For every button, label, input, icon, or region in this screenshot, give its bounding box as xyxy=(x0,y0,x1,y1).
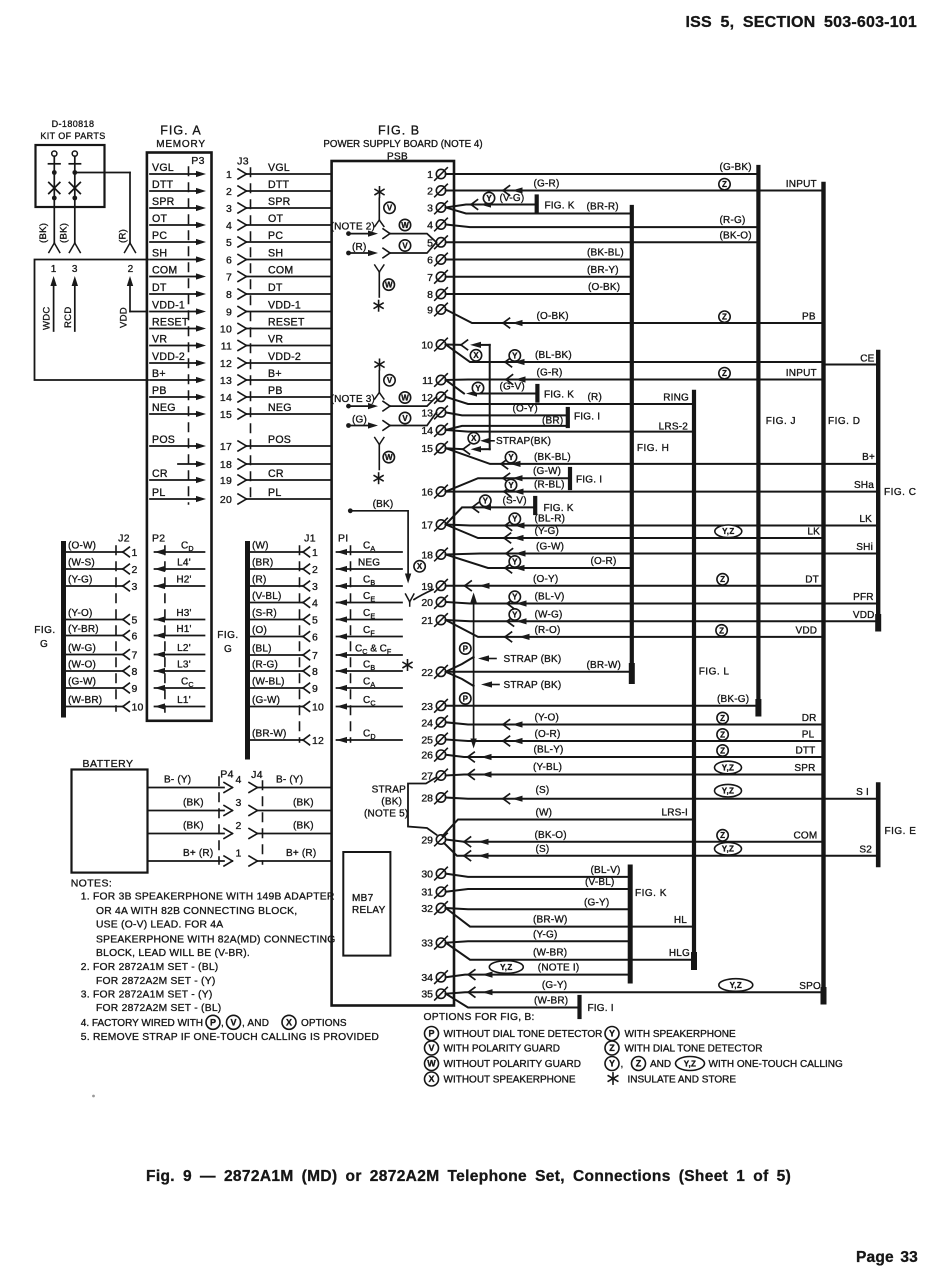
P1 wire CCF xyxy=(337,654,403,656)
svg-text:W: W xyxy=(427,1059,436,1069)
svg-text:5: 5 xyxy=(312,615,318,627)
svg-text:LK: LK xyxy=(807,527,820,538)
battery wire (BK) pin 2 xyxy=(148,833,225,835)
svg-text:4. FACTORY WIRED WITH: 4. FACTORY WIRED WITH xyxy=(81,1018,203,1029)
J1 wire (W-BL) pin 9 xyxy=(249,687,303,689)
option W circle (NOTE 2 wire1) xyxy=(399,219,410,230)
wire J3-9 to PSB xyxy=(247,311,332,313)
wire pin31 (V-BL) to FIG.K bracket xyxy=(446,889,631,892)
PSB pin 20 xyxy=(421,596,447,609)
J1 wire (V-BL) pin 4 xyxy=(249,602,303,604)
wire pin11 (G-R) INPUT to FIG.D bus xyxy=(446,379,824,382)
svg-text:G: G xyxy=(40,639,48,650)
svg-text:OT: OT xyxy=(268,213,283,225)
svg-text:31: 31 xyxy=(421,887,433,899)
J2 wire (W-G) pin 7 xyxy=(65,654,123,656)
svg-text:Y: Y xyxy=(486,194,492,203)
svg-text:1. FOR 3B SPEAKERPHONE WITH 14: 1. FOR 3B SPEAKERPHONE WITH 149B ADAPTER xyxy=(81,892,335,903)
svg-text:(BR-W): (BR-W) xyxy=(587,660,622,671)
svg-text:FIG. A: FIG. A xyxy=(160,124,201,138)
label STRAP(BK) at pin15 xyxy=(480,438,490,444)
option W circle (NOTE 2 bottom) xyxy=(383,279,394,290)
svg-text:BLOCK, LEAD WILL BE (V-BR).: BLOCK, LEAD WILL BE (V-BR). xyxy=(96,948,250,959)
svg-text:NEG: NEG xyxy=(152,402,176,414)
PSB pin 35 xyxy=(421,987,447,1000)
option V circle (NOTE 2 wire2) xyxy=(399,240,410,251)
svg-text:9: 9 xyxy=(226,307,232,319)
svg-text:J3: J3 xyxy=(237,156,249,168)
svg-text:Z: Z xyxy=(720,831,725,840)
wire pin3 (BR-R) to FIG.H bus xyxy=(446,208,632,214)
wire CE between FIG.D and FIG.C xyxy=(824,364,879,366)
wire SH row from kit region xyxy=(35,260,149,381)
wire pin29 (S) S2 to FIG.E bus xyxy=(444,843,878,856)
wire J3-10 to PSB xyxy=(247,328,332,330)
wire pin21 (W-G) VDD to FIG.C bus xyxy=(446,620,879,621)
svg-text:7: 7 xyxy=(226,272,232,284)
PSB pin 24 xyxy=(421,716,447,729)
svg-text:Y,Z: Y,Z xyxy=(722,845,734,854)
svg-text:Y: Y xyxy=(609,1059,615,1069)
P2 wire L3' xyxy=(155,670,205,672)
svg-text:LRS-I: LRS-I xyxy=(661,808,688,819)
svg-text:7: 7 xyxy=(312,650,318,662)
svg-text:HLG: HLG xyxy=(669,948,690,959)
svg-text:RCD: RCD xyxy=(63,307,74,328)
svg-text:(BR-W): (BR-W) xyxy=(252,729,287,740)
svg-text:35: 35 xyxy=(421,989,433,1001)
svg-text:(R): (R) xyxy=(118,229,129,243)
PSB pin 11 xyxy=(422,374,447,387)
J2 wire (Y-G) pin 3 xyxy=(65,585,123,587)
strap note5 between pin 27 and 29 xyxy=(408,778,437,835)
P1 wire CC xyxy=(337,706,403,708)
J2 wire (G-W) pin 9 xyxy=(65,687,123,689)
svg-text:(O-R): (O-R) xyxy=(535,729,561,740)
svg-text:(G-V): (G-V) xyxy=(500,382,525,393)
svg-text:X: X xyxy=(473,351,479,360)
svg-text:(BK): (BK) xyxy=(381,797,402,808)
J2 wire (Y-O) pin 5 xyxy=(65,619,123,621)
svg-text:PL: PL xyxy=(268,487,281,499)
svg-text:(Y-G): (Y-G) xyxy=(535,526,560,537)
svg-text:D-180818: D-180818 xyxy=(52,119,95,129)
svg-text:(R): (R) xyxy=(588,392,602,403)
svg-text:(W-G): (W-G) xyxy=(535,609,563,620)
svg-text:J4: J4 xyxy=(251,769,263,781)
J1 dashed connector line xyxy=(299,546,301,742)
svg-text:(S): (S) xyxy=(536,844,550,855)
svg-text:COM: COM xyxy=(152,264,177,276)
svg-text:(Y-G): (Y-G) xyxy=(533,929,558,940)
wire pin13 (O-Y) to FIG.I bar xyxy=(446,412,568,415)
wire pin28 (S) S1 to FIG.E bus xyxy=(446,798,879,799)
kit fork terminal 2 xyxy=(69,243,75,253)
svg-text:3: 3 xyxy=(235,797,241,809)
memory box outline xyxy=(147,153,212,721)
svg-text:S2: S2 xyxy=(859,844,872,855)
svg-text:VDD: VDD xyxy=(795,625,817,636)
bus FIG.D vertical xyxy=(821,184,825,992)
wire pin17 (BL-R) LK to FIG.C bus xyxy=(446,525,879,526)
wire pin6 (BK-BL) to FIG.H bus xyxy=(446,259,632,261)
svg-text:PFR: PFR xyxy=(853,592,874,603)
svg-text:Y,Z: Y,Z xyxy=(722,763,734,772)
svg-text:AND: AND xyxy=(650,1059,671,1070)
svg-text:FIG. K: FIG. K xyxy=(545,201,575,212)
svg-text:SPR: SPR xyxy=(152,196,175,208)
svg-text:(G-W): (G-W) xyxy=(68,677,96,688)
P1 wire CD xyxy=(337,739,403,741)
svg-text:P: P xyxy=(463,694,469,703)
svg-text:3: 3 xyxy=(132,581,138,593)
svg-text:WITH ONE-TOUCH CALLING: WITH ONE-TOUCH CALLING xyxy=(709,1059,843,1070)
kit fork terminal 1 xyxy=(49,243,55,253)
svg-text:INPUT: INPUT xyxy=(786,179,817,190)
svg-text:SPR: SPR xyxy=(794,763,815,774)
svg-text:19: 19 xyxy=(220,475,232,487)
option V circle (NOTE 2 top) xyxy=(384,202,395,213)
svg-text:SH: SH xyxy=(268,247,283,259)
svg-text:14: 14 xyxy=(220,392,232,404)
svg-text:10: 10 xyxy=(312,702,324,714)
svg-text:INSULATE AND STORE: INSULATE AND STORE xyxy=(628,1075,737,1086)
wire J3-17 to PSB xyxy=(247,445,332,447)
option W circle (NOTE 3 bottom) xyxy=(383,451,394,462)
svg-text:OPTIONS: OPTIONS xyxy=(301,1018,347,1029)
svg-text:Z: Z xyxy=(609,1043,615,1053)
option V circle (NOTE 3 top) xyxy=(384,375,395,386)
fork terminal at pin20 row xyxy=(406,594,410,602)
svg-text:(BL-V): (BL-V) xyxy=(591,865,621,876)
PSB pin 34 xyxy=(421,971,447,984)
svg-text:Z: Z xyxy=(720,714,725,723)
RCD arrow xyxy=(74,280,76,331)
svg-text:(O-Y): (O-Y) xyxy=(533,574,558,585)
svg-text:, AND: , AND xyxy=(242,1018,269,1029)
svg-text:6: 6 xyxy=(427,255,433,267)
svg-text:Y: Y xyxy=(475,384,481,393)
wire J3-15 to PSB xyxy=(247,413,332,415)
svg-text:(V-BL): (V-BL) xyxy=(252,591,282,602)
svg-text:30: 30 xyxy=(421,869,433,881)
svg-text:FIG. I: FIG. I xyxy=(576,475,602,486)
P1 wire CB xyxy=(337,670,403,672)
wire J3-4 to PSB xyxy=(247,224,332,226)
svg-text:23: 23 xyxy=(421,701,433,713)
PSB box outline xyxy=(332,161,454,1006)
svg-text:(BK-G): (BK-G) xyxy=(717,694,749,705)
svg-text:10: 10 xyxy=(220,324,232,336)
PSB pin 12 xyxy=(421,391,447,404)
P2 wire H1' xyxy=(155,635,205,637)
svg-text:X: X xyxy=(428,1074,434,1084)
bus FIG.E vertical xyxy=(876,785,881,866)
J1 wire (BL) pin 7 xyxy=(249,654,303,656)
svg-text:DTT: DTT xyxy=(268,179,290,191)
FIG.K termination bracket bottom xyxy=(628,867,633,981)
wire pin19 (O-Y) DT to FIG.D bus xyxy=(446,585,824,587)
wire pin16 (R-BL) SHa to FIG.C bus xyxy=(446,491,879,493)
svg-text:FIG.: FIG. xyxy=(34,625,55,636)
wire J3-13 to PSB xyxy=(247,379,332,381)
wire pin26 (BL-Y) DTT to FIG.D bus xyxy=(446,755,824,757)
svg-text:8: 8 xyxy=(312,666,318,678)
PSB pin 6 xyxy=(427,253,447,266)
battery wire B- (Y) pin 4 xyxy=(148,787,225,789)
svg-text:POS: POS xyxy=(268,434,291,446)
svg-text:13: 13 xyxy=(220,375,232,387)
svg-text:15: 15 xyxy=(421,443,433,455)
svg-text:(R): (R) xyxy=(352,242,366,253)
svg-text:H1': H1' xyxy=(176,624,191,635)
wire pin20 (BL-V) PFR to FIG.C bus xyxy=(446,602,879,604)
P2 wire H2' xyxy=(155,585,205,587)
PSB pin 33 xyxy=(421,936,447,949)
svg-text:X: X xyxy=(471,434,477,443)
svg-text:(BR-R): (BR-R) xyxy=(587,202,619,213)
insulated lead asterisk top (NOTE 2) xyxy=(379,187,381,197)
PSB pin 8 xyxy=(427,288,447,301)
svg-text:H2': H2' xyxy=(176,575,191,586)
svg-text:12: 12 xyxy=(220,358,232,370)
J4 dashed connector line xyxy=(262,781,264,864)
svg-text:3: 3 xyxy=(312,581,318,593)
svg-text:5: 5 xyxy=(226,237,232,249)
wire pin5 (BK-O) to FIG.J bus xyxy=(446,241,759,243)
svg-text:Z: Z xyxy=(720,730,725,739)
P1 wire CA xyxy=(337,687,403,689)
svg-text:SPR: SPR xyxy=(268,196,291,208)
svg-text:RESET: RESET xyxy=(268,316,305,328)
bus FIG.J vertical xyxy=(756,167,760,704)
P2 wire CC xyxy=(155,687,205,689)
kit fork terminal 3 (R) xyxy=(125,243,131,253)
bus FIG.H vertical xyxy=(630,207,634,668)
svg-text:WITHOUT SPEAKERPHONE: WITHOUT SPEAKERPHONE xyxy=(444,1075,576,1086)
svg-text:(W-BR): (W-BR) xyxy=(533,948,567,959)
svg-text:Y: Y xyxy=(512,610,518,619)
svg-text:Y: Y xyxy=(609,1029,615,1039)
svg-text:G: G xyxy=(224,644,232,655)
legend option V xyxy=(425,1041,439,1055)
svg-text:8: 8 xyxy=(132,666,138,678)
svg-text:(W-BR): (W-BR) xyxy=(68,695,102,706)
wire pin32 (G-Y) to FIG.K bracket xyxy=(446,908,631,909)
svg-text:H3': H3' xyxy=(176,608,191,619)
wire pin22 (BR-W) to FIG.H bus xyxy=(446,671,632,673)
svg-text:17: 17 xyxy=(421,520,433,532)
wire 1 dot-arrow-fork (NOTE 3) xyxy=(346,404,351,409)
PSB pin 4 xyxy=(427,218,447,231)
svg-text:9: 9 xyxy=(312,683,318,695)
svg-text:RELAY: RELAY xyxy=(352,905,386,916)
svg-text:13: 13 xyxy=(421,407,433,419)
svg-text:10: 10 xyxy=(132,702,144,714)
svg-text:8: 8 xyxy=(427,289,433,301)
svg-text:STRAP: STRAP xyxy=(372,785,406,796)
svg-text:(Y-G): (Y-G) xyxy=(68,575,93,586)
svg-text:9: 9 xyxy=(132,683,138,695)
svg-text:,: , xyxy=(621,1059,624,1070)
svg-text:2: 2 xyxy=(226,186,232,198)
svg-text:(W): (W) xyxy=(252,541,269,552)
svg-text:3: 3 xyxy=(72,264,78,275)
PSB pin 2 xyxy=(427,184,447,197)
svg-text:(BL): (BL) xyxy=(252,644,272,655)
svg-text:B- (Y): B- (Y) xyxy=(276,775,303,786)
battery wire (BK) pin 3 xyxy=(148,810,225,812)
J1 wire (O) pin 6 xyxy=(249,636,303,638)
svg-text:DTT: DTT xyxy=(795,746,815,757)
svg-text:(R-BL): (R-BL) xyxy=(534,480,565,491)
P1 wire CE xyxy=(337,602,403,604)
wire J3-3 to PSB xyxy=(247,207,332,209)
svg-text:P: P xyxy=(463,644,469,653)
svg-text:4: 4 xyxy=(226,220,232,232)
svg-text:B+ (R): B+ (R) xyxy=(286,848,316,859)
svg-text:Y: Y xyxy=(512,593,518,602)
svg-text:3: 3 xyxy=(226,203,232,215)
wire pin2 INPUT to FIG.D bus xyxy=(446,190,824,192)
wire pin27 (Y-BL) SPR to FIG.D bus xyxy=(446,775,824,776)
option V circle (NOTE 3 wire2) xyxy=(399,412,410,423)
P2 wire H3' xyxy=(155,619,205,621)
svg-text:6: 6 xyxy=(132,631,138,643)
wire pin14 (BR) to FIG.I bar xyxy=(446,426,568,430)
svg-text:P3: P3 xyxy=(191,155,204,167)
svg-text:RESET: RESET xyxy=(152,316,189,328)
svg-text:COM: COM xyxy=(268,264,293,276)
wire pin14 LRS-2 to bus xyxy=(446,430,694,432)
wire 2 dot-arrow-fork (NOTE 3) xyxy=(346,423,351,428)
svg-text:11: 11 xyxy=(422,375,433,387)
J2 connector bracket xyxy=(61,544,66,716)
fork terminal (NOTE 3 top) xyxy=(375,393,380,400)
svg-text:(W): (W) xyxy=(536,808,553,819)
wire pin12 (R) RING to bus xyxy=(446,397,694,404)
svg-text:(G-Y): (G-Y) xyxy=(584,897,609,908)
wire (R) from kit to VDD drop xyxy=(75,172,130,174)
svg-text:26: 26 xyxy=(421,750,433,762)
legend option Y,Z combined xyxy=(605,1057,619,1071)
svg-text:VR: VR xyxy=(152,333,167,345)
svg-text:FIG. C: FIG. C xyxy=(884,487,916,498)
svg-text:33: 33 xyxy=(421,938,433,950)
svg-text:(S): (S) xyxy=(536,785,550,796)
J1 wire (BR-W) pin 12 xyxy=(249,739,303,741)
battery box xyxy=(72,770,148,873)
wire pin33 (W-BR) HLG to bus xyxy=(446,943,694,960)
svg-text:18: 18 xyxy=(421,550,433,562)
svg-text:Y: Y xyxy=(512,515,518,524)
svg-text:14: 14 xyxy=(421,425,433,437)
fork terminal (NOTE 2 bottom) xyxy=(375,265,380,272)
svg-text:W: W xyxy=(401,393,409,402)
J1 connector bracket xyxy=(245,544,250,758)
svg-text:Z: Z xyxy=(722,313,727,322)
svg-text:V: V xyxy=(230,1018,236,1028)
svg-text:(V-BL): (V-BL) xyxy=(585,877,615,888)
wire pin23 (BK-G) to FIG.J bus xyxy=(446,705,759,707)
svg-text:(BK-BL): (BK-BL) xyxy=(534,452,571,463)
svg-text:(R): (R) xyxy=(252,575,266,586)
svg-text:W: W xyxy=(385,453,393,462)
P1 wire NEG xyxy=(337,568,403,570)
svg-text:DT: DT xyxy=(268,282,283,294)
option X circle near BK drop xyxy=(414,561,425,572)
svg-text:2: 2 xyxy=(128,264,134,275)
wire pin35 (W-BR) to FIG.I bar xyxy=(446,994,580,1008)
svg-text:(BK): (BK) xyxy=(373,499,394,510)
wire J3-11 to PSB xyxy=(247,345,332,347)
svg-text:B+: B+ xyxy=(268,368,282,380)
svg-text:(R-G): (R-G) xyxy=(252,660,278,671)
J2 wire (W-O) pin 8 xyxy=(65,670,123,672)
svg-text:,: , xyxy=(221,1018,224,1029)
svg-text:(BR): (BR) xyxy=(252,558,273,569)
svg-text:KIT OF PARTS: KIT OF PARTS xyxy=(40,131,105,141)
svg-text:B+: B+ xyxy=(152,368,166,380)
svg-text:V: V xyxy=(387,376,393,385)
svg-text:Y,Z: Y,Z xyxy=(722,787,734,796)
svg-text:(BK): (BK) xyxy=(293,821,314,832)
svg-text:22: 22 xyxy=(421,667,433,679)
svg-text:S I: S I xyxy=(856,787,869,798)
insulated lead asterisk top (NOTE 3) xyxy=(379,359,381,369)
fork terminal (NOTE 2 top) xyxy=(375,220,380,227)
svg-text:VDD-2: VDD-2 xyxy=(152,351,185,363)
svg-text:(O-R): (O-R) xyxy=(591,556,617,567)
wire J3-12 to PSB xyxy=(247,362,332,364)
svg-text:(BR): (BR) xyxy=(542,415,563,426)
P2 wire L4' xyxy=(155,568,205,570)
svg-text:FOR 2872A2M SET - (Y): FOR 2872A2M SET - (Y) xyxy=(96,976,216,987)
svg-text:FIG. B: FIG. B xyxy=(378,124,420,138)
svg-text:FIG. H: FIG. H xyxy=(637,443,669,454)
svg-text:VDD-1: VDD-1 xyxy=(268,299,301,311)
svg-text:NEG: NEG xyxy=(268,402,292,414)
wire J3-6 to PSB xyxy=(247,259,332,261)
wire pin34 (Y,Z) NOTE 1 to FIG.K bracket xyxy=(446,975,631,978)
svg-text:(G-R): (G-R) xyxy=(537,368,563,379)
svg-text:PC: PC xyxy=(152,230,167,242)
svg-text:PC: PC xyxy=(268,230,283,242)
svg-text:25: 25 xyxy=(421,735,433,747)
svg-text:L3': L3' xyxy=(177,660,191,671)
svg-text:B+: B+ xyxy=(862,452,875,463)
svg-text:STRAP(BK): STRAP(BK) xyxy=(496,436,551,447)
wire pin32 (BR-W) HL to bus xyxy=(446,908,694,927)
legend option Y xyxy=(605,1027,619,1041)
svg-text:20: 20 xyxy=(421,597,433,609)
svg-text:POS: POS xyxy=(152,434,175,446)
svg-text:Y,Z: Y,Z xyxy=(722,527,734,536)
PSB pin 25 xyxy=(421,733,447,746)
svg-text:LRS-2: LRS-2 xyxy=(659,421,689,432)
svg-text:L4': L4' xyxy=(177,558,191,569)
svg-text:(W-O): (W-O) xyxy=(68,660,96,671)
wire J3-19 to PSB xyxy=(247,479,332,481)
PSB pin 21 xyxy=(421,614,447,627)
svg-text:6: 6 xyxy=(226,255,232,267)
svg-text:27: 27 xyxy=(421,771,433,783)
svg-text:Y,Z: Y,Z xyxy=(684,1059,696,1068)
svg-text:(O-BK): (O-BK) xyxy=(588,282,620,293)
svg-text:SHi: SHi xyxy=(856,542,873,553)
svg-text:5: 5 xyxy=(132,615,138,627)
svg-text:28: 28 xyxy=(421,793,433,805)
